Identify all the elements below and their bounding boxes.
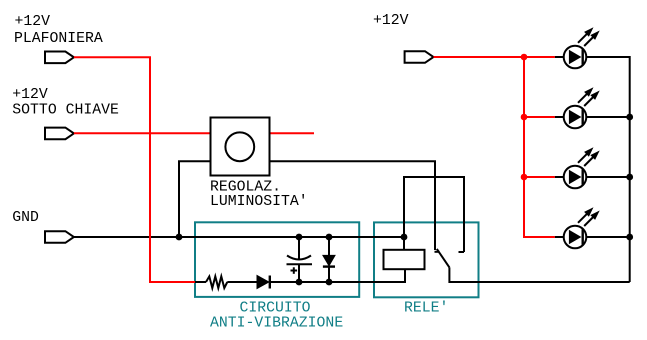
wire: dimmer right pin to relay switch common	[270, 161, 436, 250]
connector J2 (+12V sotto chiave)	[45, 128, 74, 140]
LED D4	[555, 106, 586, 129]
svg-text:SOTTO CHIAVE: SOTTO CHIAVE	[12, 103, 119, 119]
wire: LED1 cathode to return bus	[586, 57, 629, 282]
connector J1 (+12V plafoniera)	[45, 52, 74, 64]
junction dot: dimmer/GND	[176, 234, 183, 241]
wire: red stub to LED2	[524, 116, 555, 118]
wire: relay output to LED return bus	[449, 267, 629, 282]
LED D6	[555, 226, 586, 249]
svg-text:+12V: +12V	[373, 13, 409, 29]
junction dot red: LED3 branch	[521, 174, 528, 181]
svg-text:+12V: +12V	[15, 14, 51, 30]
wire: holding-contact bridge	[404, 177, 464, 252]
svg-text:CIRCUITO: CIRCUITO	[240, 300, 311, 316]
wire: red stub to LED3	[524, 176, 555, 178]
label +12V PLAFONIERA	[14, 14, 103, 47]
wire: red anode bus	[524, 57, 555, 237]
label REGOLAZ. LUMINOSITA'	[210, 180, 308, 211]
junction dot: LED3 cathode / bus	[626, 174, 633, 181]
anti-vibration enclosure box (teal)	[195, 222, 359, 297]
junction dot red: LED2 branch	[521, 114, 528, 121]
light emission arrows LED D4	[578, 87, 600, 106]
svg-text:ANTI-VIBRAZIONE: ANTI-VIBRAZIONE	[210, 316, 343, 332]
diode D1 (series)	[257, 276, 270, 289]
dimmer box REGOLAZ. LUMINOSITA'	[211, 118, 270, 176]
LED D5	[555, 166, 586, 189]
junction dot red: LED1 branch	[521, 54, 528, 61]
label CIRCUITO ANTI-VIBRAZIONE (teal)	[210, 300, 343, 331]
capacitor C1 (electrolytic)	[287, 237, 313, 282]
connector J4 (+12V LEDs)	[405, 51, 434, 63]
diode D2 (protection, vertical)	[323, 237, 335, 282]
wire: dimmer left pin down to GND rail	[179, 161, 211, 237]
wire: LED3 cathode to return bus	[586, 176, 629, 178]
relay fixed contact hook	[459, 251, 465, 253]
wire: +12V plafoniera to anti-vibration input (red)	[74, 57, 195, 282]
resistor R1	[206, 276, 227, 288]
wire: resistor to diode D1	[227, 281, 257, 283]
svg-text:LUMINOSITA': LUMINOSITA'	[210, 194, 308, 210]
wire: GND rail	[74, 236, 404, 238]
svg-text:GND: GND	[12, 210, 39, 226]
svg-text:+12V: +12V	[12, 87, 48, 103]
junction dot: diode D2 top / GND rail	[326, 234, 333, 241]
wire: LED2 cathode to return bus	[586, 116, 629, 118]
label GND	[12, 210, 39, 226]
junction dot: capacitor top / GND rail	[296, 234, 303, 241]
wire: relay coil top lead	[403, 237, 405, 250]
wire: +12V to LED1 anode (red)	[434, 56, 555, 58]
svg-text:PLAFONIERA: PLAFONIERA	[14, 31, 103, 47]
connector J3 (GND)	[45, 231, 74, 243]
light emission arrows LED D3	[578, 27, 600, 46]
junction dot: coil top / GND / bridge	[401, 234, 408, 241]
relay switch arm	[435, 249, 450, 268]
wire: diode D1 to anti-vib output	[270, 281, 359, 283]
relay coil K1	[384, 250, 425, 269]
wire: bottom rail into resistor	[195, 281, 206, 283]
wire: dimmer output stub (red)	[270, 132, 315, 134]
label +12V SOTTO CHIAVE	[12, 87, 119, 119]
junction dot: diode D2 bottom / output rail	[326, 279, 333, 286]
label RELE&#39; (teal)	[404, 300, 448, 316]
junction dot: capacitor bottom / output rail	[296, 279, 303, 286]
junction dot: LED2 cathode / bus	[626, 114, 633, 121]
dimmer knob circle	[225, 132, 254, 161]
label +12V (LED supply)	[373, 13, 409, 29]
svg-text:RELE': RELE'	[404, 300, 448, 316]
relay enclosure box (teal)	[374, 222, 479, 297]
wire: sotto chiave to dimmer input (red)	[74, 132, 211, 134]
LED D3	[555, 46, 586, 69]
junction dot: LED4 cathode / bus	[626, 234, 633, 241]
light emission arrows LED D6	[578, 207, 600, 226]
wire: anti-vib output to relay coil bottom	[359, 270, 405, 283]
light emission arrows LED D5	[578, 147, 600, 166]
wire: LED4 cathode to return bus	[586, 236, 629, 238]
